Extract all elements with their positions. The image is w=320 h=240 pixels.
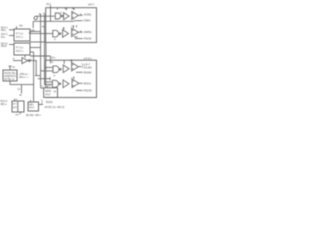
svg-text:RCA 2: RCA 2: [1, 42, 8, 45]
svg-text:4T17: 4T17: [29, 108, 35, 110]
svg-text:W: W: [65, 9, 68, 11]
svg-text:P T :: P T :: [13, 104, 18, 106]
svg-text:PSRV: PSRV: [84, 18, 91, 22]
svg-text:W: W: [72, 8, 75, 10]
svg-text:4: 4: [30, 59, 31, 61]
svg-text:RCA 3: RCA 3: [1, 100, 8, 103]
svg-text:4x: 4x: [63, 28, 65, 30]
svg-text:tx: tx: [49, 85, 52, 88]
svg-text:Cx: Cx: [18, 89, 22, 91]
svg-text:xxx: xxx: [16, 115, 20, 117]
svg-text:tx: tx: [42, 84, 44, 87]
svg-text:4T7 :: 4T7 :: [13, 108, 19, 110]
svg-text:4-P-7: 4-P-7: [88, 2, 95, 6]
svg-text:4T17: 4T17: [45, 94, 51, 96]
svg-text:PB-L: PB-L: [1, 30, 7, 32]
svg-text:tx: tx: [52, 61, 55, 64]
svg-text:4x: 4x: [13, 67, 16, 69]
svg-text:AW-x——: AW-x——: [19, 76, 30, 79]
svg-text:PSCW: PSCW: [84, 37, 92, 41]
svg-text:4x: 4x: [16, 99, 18, 101]
svg-text:W-TEL xx: W-TEL xx: [4, 79, 15, 81]
svg-text:R1001: R1001: [46, 102, 53, 104]
svg-text:W x: W x: [52, 58, 57, 60]
svg-text:W: W: [54, 76, 56, 78]
svg-text:IN-L: IN-L: [1, 37, 6, 39]
svg-text:x+: x+: [45, 68, 48, 70]
svg-text:SC-RA: SC-RA: [84, 65, 92, 69]
svg-text:(B.1W)—WA x: (B.1W)—WA x: [26, 114, 42, 117]
svg-text:t x: t x: [71, 77, 73, 80]
svg-text:4T17 x: 4T17 x: [16, 51, 24, 53]
svg-text:MPx: MPx: [29, 104, 34, 106]
svg-text:RDAW: RDAW: [84, 70, 92, 74]
svg-text:MPW: MPW: [45, 91, 51, 93]
svg-text:PDCW: PDCW: [84, 88, 92, 92]
svg-text:AWRQ: AWRQ: [84, 30, 92, 34]
svg-text:ACRQ: ACRQ: [84, 13, 92, 17]
svg-text:J-P-5 x: J-P-5 x: [84, 56, 93, 60]
svg-text:P T 2-x: P T 2-x: [16, 34, 24, 36]
svg-text:P T 2-x: P T 2-x: [16, 47, 24, 49]
svg-text:PB-R: PB-R: [1, 46, 7, 48]
svg-text:4T17 x: 4T17 x: [16, 37, 24, 39]
svg-text:+PW-xx—: +PW-xx—: [19, 74, 30, 76]
svg-text:MIC-x: MIC-x: [1, 104, 8, 106]
svg-text:+W WX (J)—WA (J): +W WX (J)—WA (J): [44, 106, 64, 109]
svg-text:AVERTE-N x: AVERTE-N x: [4, 75, 18, 78]
svg-text:10u: 10u: [19, 26, 24, 28]
svg-text:4x: 4x: [39, 14, 42, 16]
svg-text:W: W: [54, 39, 56, 41]
svg-text:RCA 1: RCA 1: [1, 27, 8, 30]
svg-text:FAON-TEL x: FAON-TEL x: [4, 72, 18, 75]
svg-text:RDCA: RDCA: [84, 81, 92, 85]
svg-text:J4-2: J4-2: [46, 2, 52, 6]
svg-text:AUX 1: AUX 1: [1, 33, 8, 36]
svg-text:tx: tx: [60, 12, 63, 15]
